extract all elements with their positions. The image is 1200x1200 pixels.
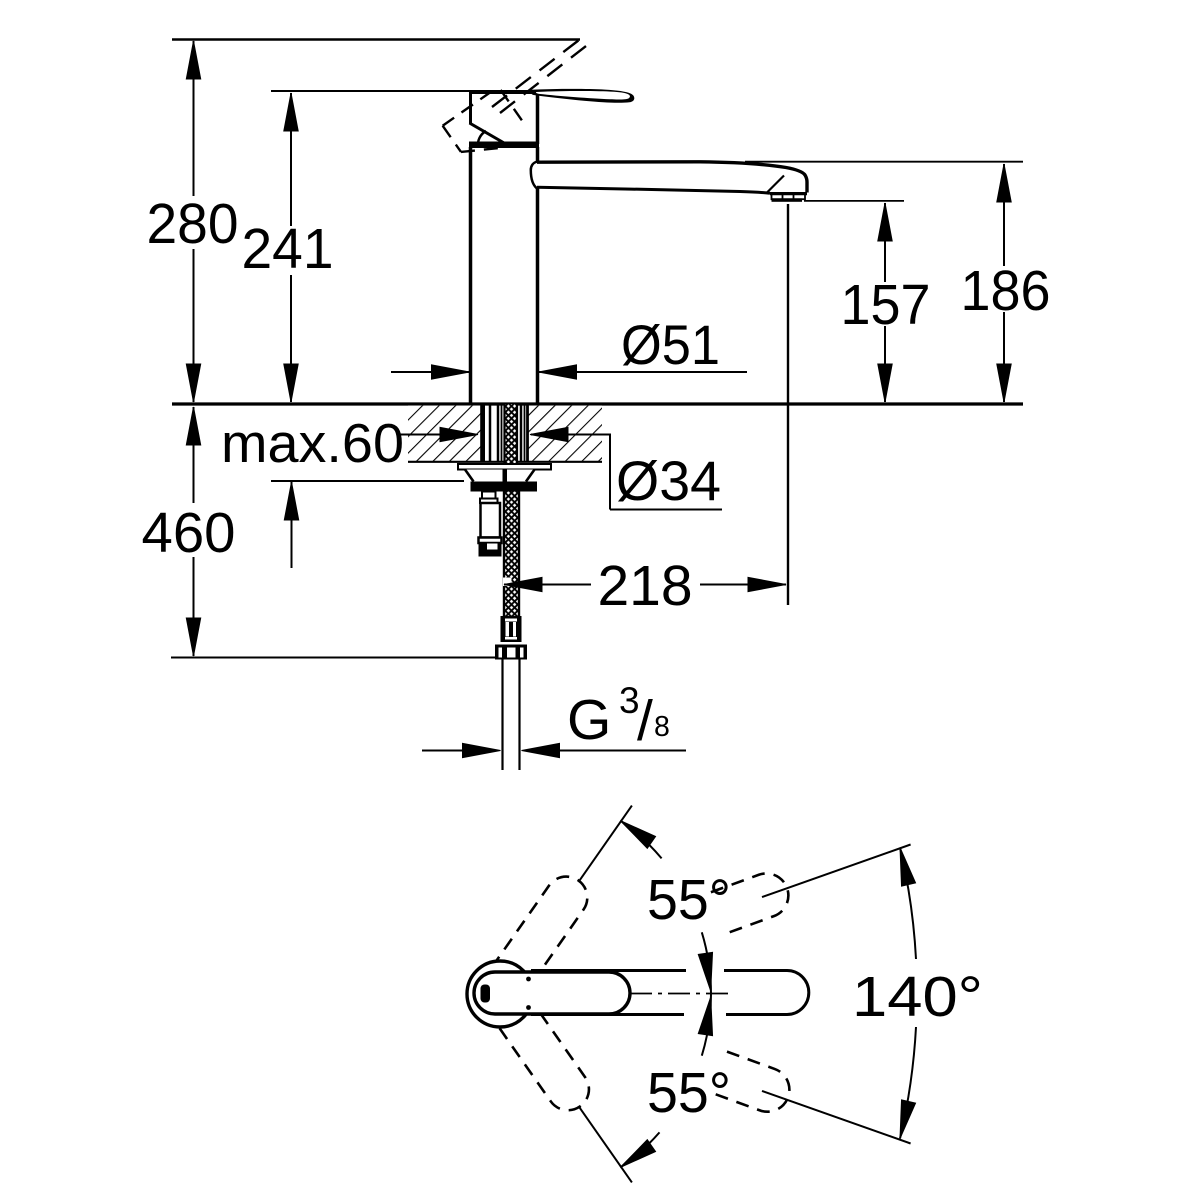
mounting nut (black) [471, 482, 538, 492]
svg-text:8: 8 [654, 711, 670, 743]
460 bottom extension line [171, 657, 497, 659]
Ø34 leader [609, 434, 611, 510]
svg-text:Ø34: Ø34 [616, 449, 721, 512]
mounting stud [482, 492, 496, 499]
hatched counter cross-section left [408, 406, 481, 462]
junction dots [526, 977, 531, 982]
svg-text:G: G [567, 688, 611, 752]
faucet body column [469, 147, 473, 403]
braided hose (below nut) [504, 490, 519, 616]
dimension 460 line [193, 407, 195, 503]
solid lever handle [530, 89, 634, 103]
aerator [772, 194, 806, 199]
max.60 vertical arrow [291, 482, 293, 568]
dimension 280 line [193, 41, 195, 196]
218 gap notch in hose [503, 578, 512, 587]
svg-text:max.60: max.60 [221, 412, 404, 474]
dimension G3/8 [422, 750, 462, 752]
dashed handle rotated up 55 [467, 867, 796, 1118]
extension line 157 (aerator) [804, 200, 904, 202]
55 lower arc [702, 994, 711, 1056]
body circle [467, 961, 533, 1027]
svg-text:460: 460 [142, 501, 236, 565]
counter bottom line [408, 461, 602, 463]
hose end fitting [501, 616, 522, 642]
max.60 bottom extension line [271, 480, 464, 482]
dimension 157 line [884, 203, 886, 282]
spout tip detail line [767, 176, 784, 193]
dimension max.60 horizontal arrows [400, 434, 469, 436]
extension line 241 [271, 90, 487, 92]
20 degree spout limit line lower [762, 1091, 911, 1144]
dimension 186 line [1003, 164, 1005, 266]
dashed raised handle (rotated copy) [443, 87, 528, 168]
svg-text:140°: 140° [852, 965, 983, 1029]
svg-text:157: 157 [841, 273, 931, 337]
20 degree spout limit line upper [762, 845, 911, 898]
pivot arc [478, 131, 486, 147]
extension line 186 top [745, 161, 1023, 163]
supply tube [501, 660, 503, 771]
140 arc [900, 848, 916, 960]
hatched counter cross-section right [528, 406, 602, 462]
cartridge base black band [469, 142, 539, 149]
braided hose (shank part) [505, 404, 517, 464]
svg-text:Ø51: Ø51 [621, 313, 720, 376]
faucet head block [470, 90, 536, 94]
handle end mark [481, 985, 491, 1003]
spout [531, 162, 537, 189]
mounting flange plate [458, 464, 551, 470]
centerline dash-dot [630, 993, 733, 995]
extension line top (280) [172, 38, 580, 40]
flange trapezoid [465, 470, 535, 482]
dimension 218 [504, 584, 591, 586]
dimension 241 line [290, 93, 292, 226]
svg-text:241: 241 [242, 217, 334, 281]
svg-text:55°: 55° [647, 868, 731, 932]
spout tip bottom edge [770, 192, 807, 195]
deck / countertop line [172, 402, 1023, 405]
55 upper arc [620, 821, 661, 859]
handle stadium [474, 972, 630, 1014]
svg-text:55°: 55° [647, 1061, 731, 1125]
55 degree reference line upper [579, 806, 632, 882]
dimension Ø51 arrows [391, 371, 469, 373]
svg-text:186: 186 [961, 259, 1051, 323]
spout outline [531, 971, 809, 1015]
shank verticals [480, 404, 485, 462]
hose hex nut [495, 645, 527, 660]
svg-text:/: / [637, 689, 653, 753]
svg-text:280: 280 [147, 192, 239, 256]
55 degree reference line lower [579, 1106, 632, 1182]
dashed raised lever blade [492, 40, 586, 113]
svg-text:218: 218 [597, 554, 692, 618]
spout outlet extension vertical [787, 204, 789, 605]
